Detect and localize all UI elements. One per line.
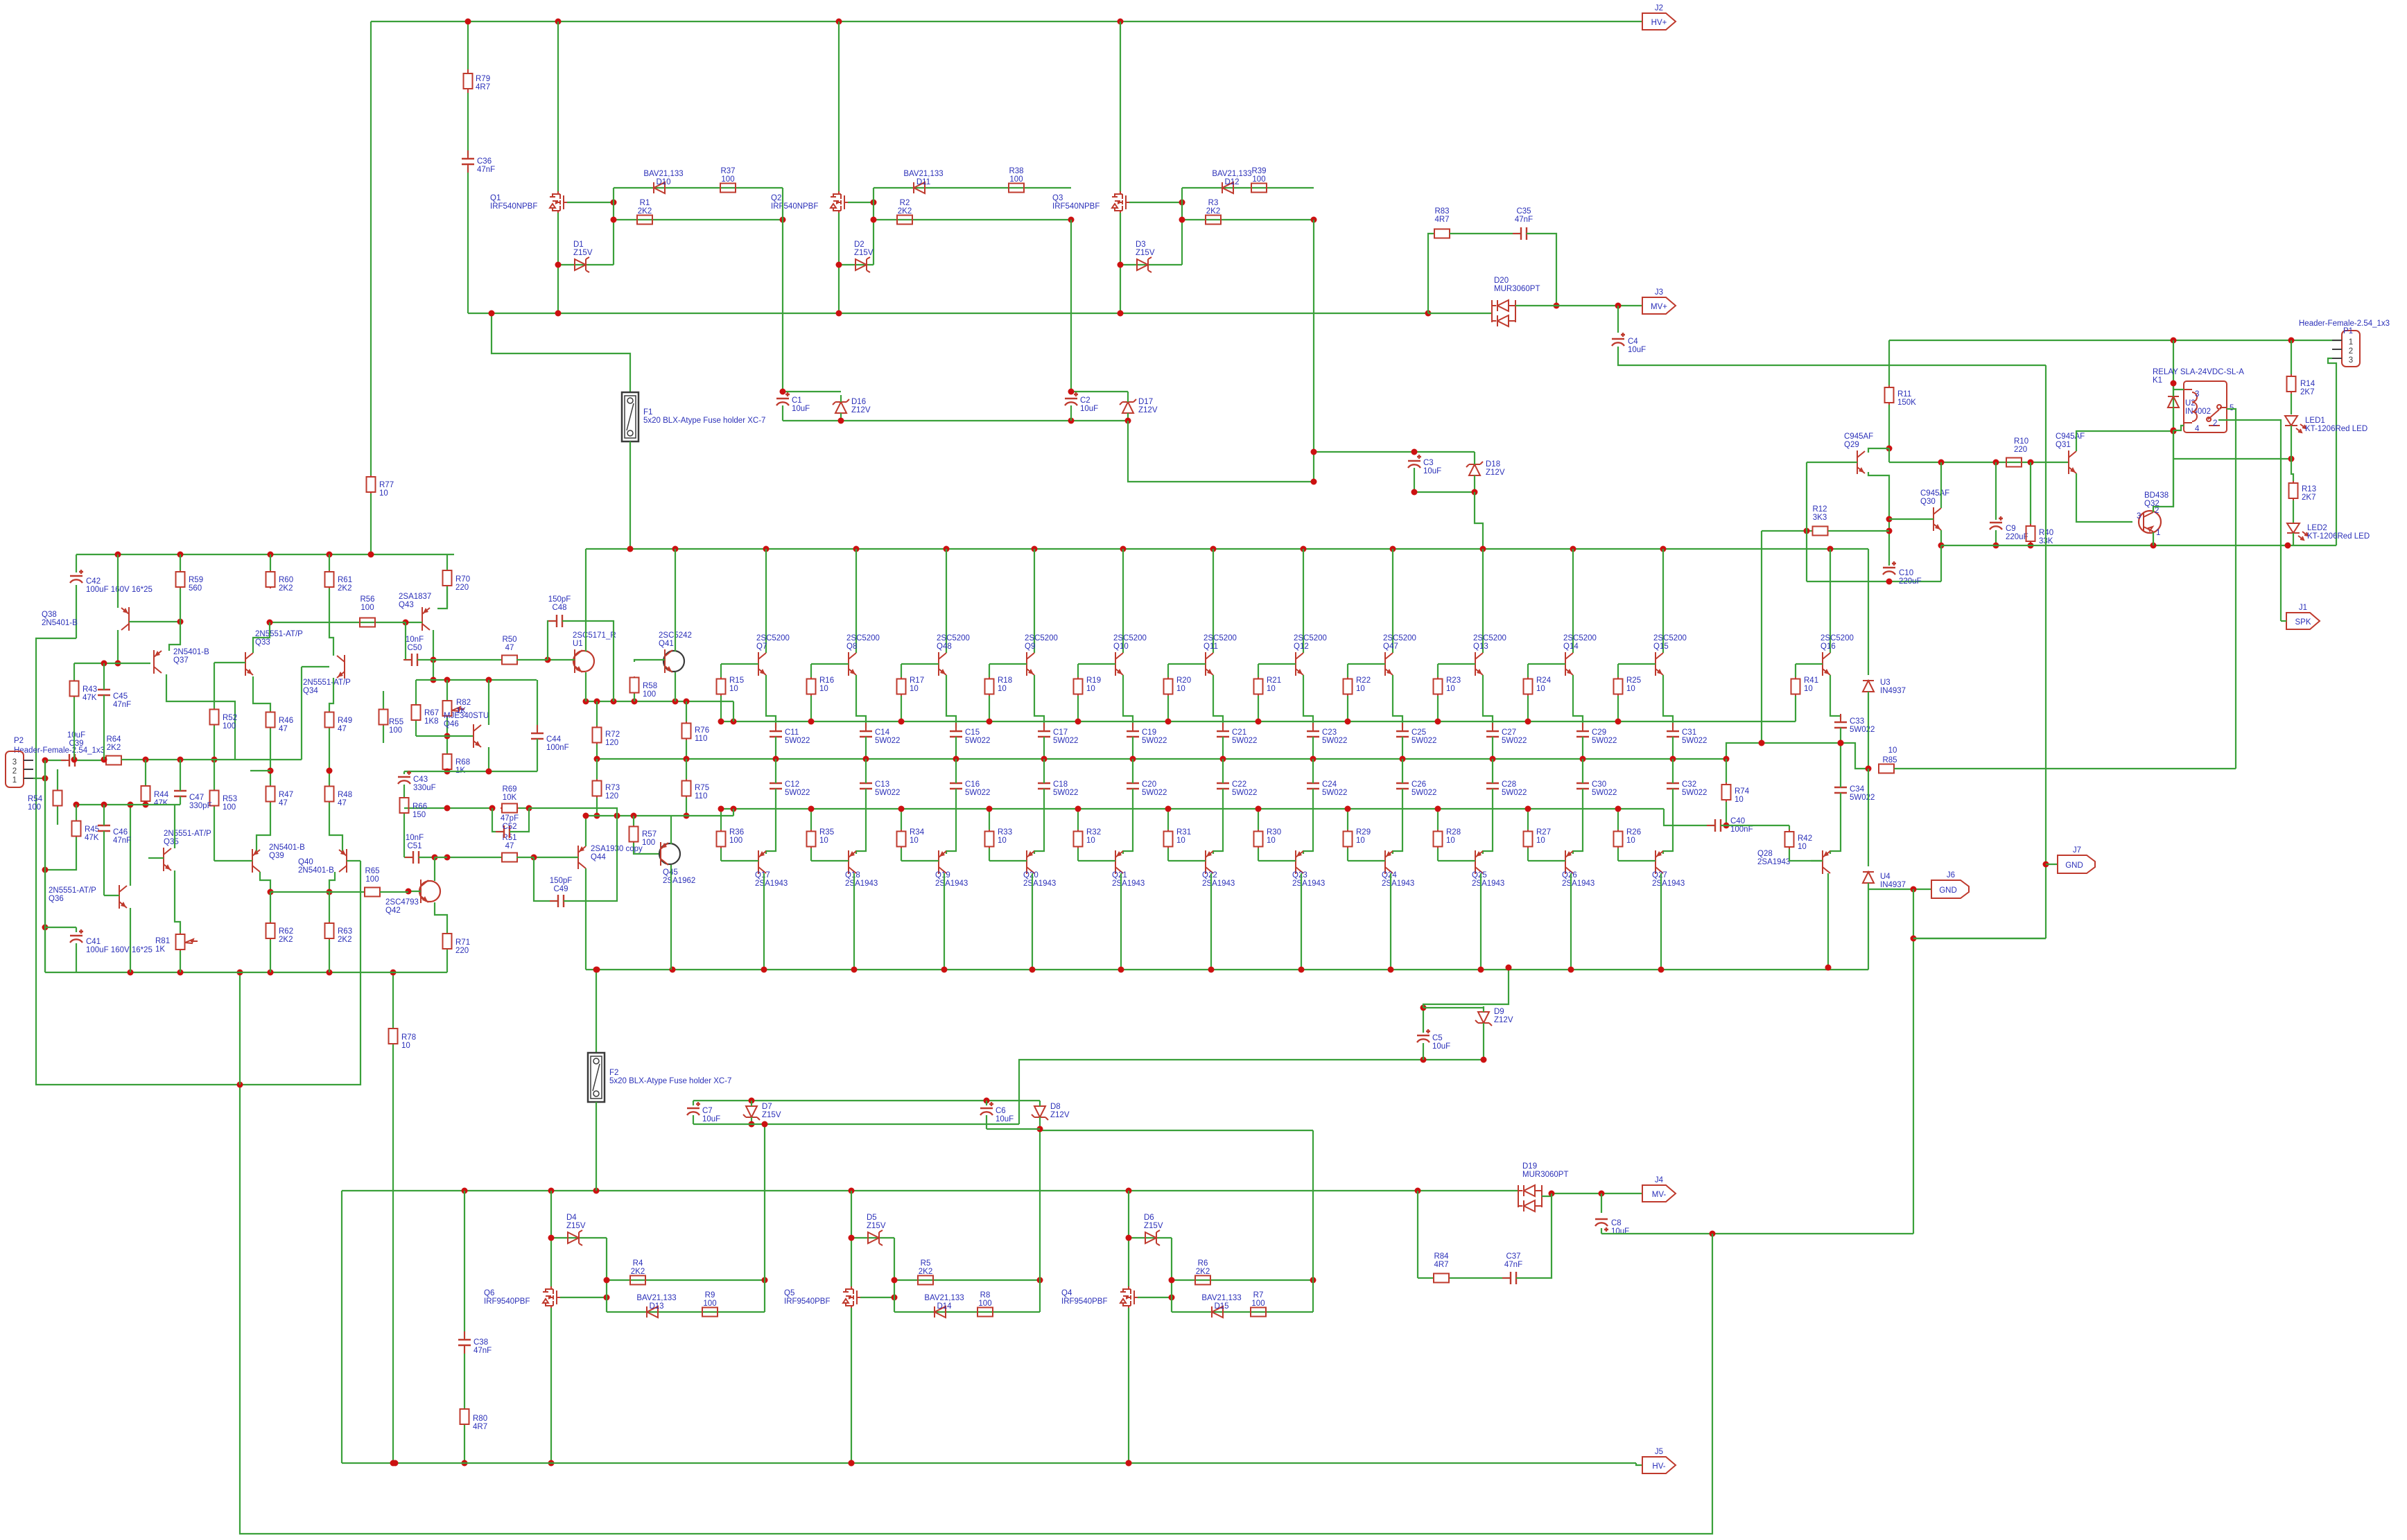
svg-text:R62: R62 bbox=[279, 927, 293, 936]
svg-text:BAV21,133: BAV21,133 bbox=[1212, 170, 1251, 178]
wire Q21 base bbox=[1078, 860, 1115, 861]
svg-text:100nF: 100nF bbox=[546, 744, 569, 752]
wire bbox=[865, 759, 867, 783]
wire relay pin2 to SPK bbox=[2218, 420, 2281, 621]
capacitor C3 10uF bbox=[1408, 460, 1420, 462]
wire rail corner bbox=[44, 760, 46, 972]
relay K1 SLA-24VDC-SL-A bbox=[2184, 381, 2227, 432]
svg-text:100: 100 bbox=[643, 690, 656, 699]
svg-text:P2: P2 bbox=[14, 737, 24, 745]
node Q47 collector bbox=[1390, 546, 1396, 552]
transistor Q44 2SA1930 bbox=[578, 846, 586, 869]
svg-text:3: 3 bbox=[2349, 356, 2353, 365]
svg-text:10: 10 bbox=[1804, 685, 1813, 693]
resistor R2 2K2 bbox=[897, 219, 912, 220]
wire R63 bbox=[329, 892, 330, 922]
connector J2 HV+ bbox=[1642, 13, 1676, 30]
resistor R18 10 bbox=[989, 677, 990, 696]
resistor R21 10 bbox=[1258, 677, 1259, 696]
wire Q47 collector bbox=[1392, 549, 1393, 653]
wire Q11 emitter bbox=[1213, 675, 1223, 728]
svg-text:R41: R41 bbox=[1804, 676, 1818, 685]
svg-text:Q27: Q27 bbox=[1652, 871, 1667, 880]
emitter resistor C20 5W022 bbox=[1132, 775, 1133, 797]
svg-text:Z15V: Z15V bbox=[867, 1222, 886, 1230]
svg-text:Q42: Q42 bbox=[385, 907, 401, 915]
wire bbox=[1840, 728, 1841, 743]
wire Q20 collector bbox=[1032, 873, 1033, 970]
svg-text:3: 3 bbox=[12, 758, 17, 767]
svg-text:C24: C24 bbox=[1322, 780, 1337, 789]
resistor R31 10 bbox=[1167, 830, 1169, 848]
svg-text:R21: R21 bbox=[1267, 676, 1281, 685]
diode U4 IN4937 bbox=[1863, 872, 1874, 883]
svg-text:Q30: Q30 bbox=[1920, 498, 1936, 506]
svg-text:120: 120 bbox=[605, 792, 618, 800]
wire Q23 collector bbox=[1301, 873, 1302, 970]
resistor R40 33K bbox=[2030, 524, 2031, 543]
wire Q42 base bbox=[408, 891, 421, 892]
svg-text:1K: 1K bbox=[155, 945, 165, 954]
capacitor C9 220uF bbox=[1990, 522, 2002, 523]
svg-text:10uF: 10uF bbox=[1080, 405, 1098, 413]
svg-text:5x20 BLX-Atype Fuse holder XC-: 5x20 BLX-Atype Fuse holder XC-7 bbox=[643, 417, 765, 425]
wire GND spine bbox=[2045, 365, 2047, 938]
wire protection output rail bbox=[1941, 545, 2336, 546]
wire R57 to Q45 base bbox=[634, 843, 661, 854]
svg-text:R37: R37 bbox=[720, 167, 735, 175]
wire bbox=[989, 848, 990, 861]
wire C51 bbox=[404, 857, 412, 858]
wire bbox=[2291, 394, 2292, 414]
svg-text:2SC5200: 2SC5200 bbox=[1821, 634, 1854, 642]
svg-text:Q19: Q19 bbox=[935, 871, 950, 880]
wire Q18 collector bbox=[853, 873, 855, 970]
wire R70 column bbox=[446, 554, 448, 570]
transistor Q3 IRF540NPBF bbox=[1120, 191, 1130, 213]
svg-text:10: 10 bbox=[401, 1042, 410, 1050]
wire spine bottom bbox=[1913, 938, 2046, 939]
wire bbox=[1127, 392, 1129, 402]
wire Q6 source bbox=[550, 1191, 552, 1287]
connector J4 MV- bbox=[1642, 1185, 1676, 1202]
wire Q23 base bbox=[1258, 860, 1296, 861]
wire Q13 base bbox=[1438, 663, 1475, 665]
transistor Q28 2SA1943 bbox=[1823, 850, 1830, 874]
wire input ground column bbox=[44, 760, 46, 972]
emitter resistor C28 5W022 bbox=[1492, 775, 1493, 797]
resistor R71 220 bbox=[446, 933, 448, 950]
svg-text:D20: D20 bbox=[1494, 277, 1509, 285]
wire Q14 base bbox=[1528, 663, 1565, 665]
svg-text:R81: R81 bbox=[155, 937, 170, 945]
svg-text:10K: 10K bbox=[503, 794, 517, 802]
svg-text:R52: R52 bbox=[223, 714, 237, 722]
capacitor C1 10uF bbox=[776, 398, 789, 399]
svg-text:BD438: BD438 bbox=[2144, 491, 2169, 500]
emitter resistor C31 5W022 bbox=[1672, 723, 1674, 745]
wire bbox=[370, 493, 372, 554]
wire bbox=[596, 798, 598, 816]
wire Q28 emitter bbox=[1830, 793, 1841, 854]
transistor U1 2SC5171_R bbox=[573, 651, 594, 672]
resistor R16 10 bbox=[810, 677, 812, 696]
svg-text:R17: R17 bbox=[910, 676, 924, 685]
transistor Q40 2N5401-B bbox=[339, 849, 347, 873]
wire U1 base bbox=[548, 659, 575, 660]
svg-text:J5: J5 bbox=[1655, 1448, 1663, 1456]
node Q9 collector bbox=[1032, 546, 1038, 552]
wire bbox=[989, 664, 990, 677]
svg-text:RELAY SLA-24VDC-SL-A: RELAY SLA-24VDC-SL-A bbox=[2153, 368, 2244, 376]
capacitor C2 10uF bbox=[1065, 398, 1077, 399]
emitter resistor C27 5W022 bbox=[1492, 723, 1493, 745]
capacitor C5 10uF bbox=[1417, 1035, 1430, 1036]
wire Q26 collector bbox=[1570, 873, 1572, 970]
wire bbox=[1132, 759, 1133, 783]
wire Q41 base bbox=[634, 660, 665, 662]
svg-text:R67: R67 bbox=[424, 709, 439, 717]
node Q1 drain bbox=[555, 19, 562, 25]
svg-text:Q44: Q44 bbox=[591, 853, 606, 861]
svg-text:5W022: 5W022 bbox=[1682, 789, 1707, 797]
wire Q42 collector bbox=[434, 857, 435, 881]
wire bbox=[751, 1117, 752, 1124]
svg-text:R19: R19 bbox=[1086, 676, 1101, 685]
wire bbox=[270, 554, 271, 570]
svg-text:MV+: MV+ bbox=[1651, 303, 1667, 311]
resistor R44 47K bbox=[145, 785, 146, 802]
resistor R6 2K2 bbox=[1195, 1279, 1210, 1281]
svg-text:Q31: Q31 bbox=[2056, 441, 2071, 449]
svg-text:R25: R25 bbox=[1626, 676, 1641, 685]
trimmer R82 1K bbox=[446, 680, 448, 700]
svg-text:C20: C20 bbox=[1142, 780, 1156, 789]
wire U3 column bbox=[1868, 549, 1869, 675]
svg-text:2SC4793: 2SC4793 bbox=[385, 898, 419, 907]
wire Q35 collector bbox=[174, 805, 175, 848]
svg-text:150K: 150K bbox=[1897, 399, 1916, 407]
svg-text:47nF: 47nF bbox=[1504, 1261, 1522, 1269]
wire Q27 base bbox=[1618, 860, 1656, 861]
svg-text:C14: C14 bbox=[875, 728, 890, 737]
svg-text:D8: D8 bbox=[1050, 1103, 1061, 1111]
svg-text:Q12: Q12 bbox=[1294, 642, 1309, 651]
emitter resistor C32 5W022 bbox=[1672, 775, 1674, 797]
svg-text:R28: R28 bbox=[1446, 828, 1461, 837]
wire bbox=[810, 809, 812, 830]
svg-text:R48: R48 bbox=[338, 791, 352, 799]
svg-text:R61: R61 bbox=[338, 576, 352, 584]
svg-text:R75: R75 bbox=[695, 784, 709, 792]
transistor Q45 2SA1962 bbox=[659, 843, 680, 864]
wire bbox=[1039, 1117, 1041, 1129]
emitter resistor C23 5W022 bbox=[1312, 723, 1314, 745]
svg-text:47: 47 bbox=[279, 799, 288, 807]
wire bbox=[901, 664, 902, 677]
svg-text:C1: C1 bbox=[792, 396, 802, 405]
resistor R57 100 bbox=[633, 825, 634, 843]
svg-text:10uF: 10uF bbox=[1423, 467, 1441, 475]
svg-text:Z15V: Z15V bbox=[573, 249, 593, 257]
svg-text:Q37: Q37 bbox=[173, 656, 189, 665]
wire H_a link bbox=[1726, 743, 1868, 769]
transistor Q47 2SC5200 bbox=[1385, 652, 1393, 676]
transistor Q4 IRF9540PBF bbox=[1129, 1286, 1138, 1309]
svg-text:MV-: MV- bbox=[1652, 1191, 1667, 1199]
svg-text:R66: R66 bbox=[412, 803, 427, 811]
svg-text:LED2: LED2 bbox=[2307, 524, 2327, 532]
svg-text:C34: C34 bbox=[1850, 785, 1865, 794]
transistor Q41 2SC5242 bbox=[663, 651, 684, 672]
wire Q5 gate bbox=[860, 1297, 894, 1298]
svg-text:C10: C10 bbox=[1899, 569, 1913, 577]
wire bbox=[1527, 664, 1529, 677]
wire bbox=[1423, 1008, 1424, 1033]
wire mid tap bbox=[250, 770, 270, 771]
wire Q24 collector bbox=[1390, 873, 1391, 970]
svg-text:MUR3060PT: MUR3060PT bbox=[1494, 285, 1540, 293]
wire Q2 block to C2 bbox=[1070, 220, 1072, 392]
wire Q21 collector bbox=[1120, 873, 1122, 970]
svg-text:BAV21,133: BAV21,133 bbox=[1201, 1294, 1241, 1302]
svg-text:100: 100 bbox=[642, 839, 655, 847]
svg-text:100: 100 bbox=[28, 803, 41, 812]
fuse F2 5x20 BLX-Atype bbox=[588, 1053, 605, 1102]
wire bbox=[103, 805, 105, 825]
wire D19 output bbox=[1542, 1193, 1552, 1196]
wire PNP driver bus bbox=[586, 815, 733, 816]
resistor R11 150K bbox=[1888, 385, 1890, 405]
wire C3/D18 bottom bbox=[1414, 491, 1475, 493]
wire D9 to rail bbox=[1423, 968, 1509, 1008]
svg-text:KT-1206Red LED: KT-1206Red LED bbox=[2307, 532, 2370, 541]
wire bbox=[720, 664, 722, 677]
node Q1 gate bbox=[611, 200, 617, 206]
emitter resistor C34 5W022 bbox=[1840, 779, 1841, 801]
svg-text:C33: C33 bbox=[1850, 717, 1864, 726]
svg-text:220uF: 220uF bbox=[2006, 533, 2028, 541]
svg-text:C52: C52 bbox=[502, 823, 516, 831]
wire bbox=[596, 759, 598, 779]
emitter resistor C16 5W022 bbox=[955, 775, 957, 797]
wire bbox=[1347, 809, 1348, 830]
svg-text:2SC5200: 2SC5200 bbox=[756, 634, 790, 642]
node HV+ / R79 bbox=[465, 19, 471, 25]
LED2 KT-1206Red LED bbox=[2287, 523, 2300, 533]
wire bbox=[2291, 426, 2292, 459]
wire bbox=[383, 726, 384, 743]
transistor Q19 2SA1943 bbox=[939, 850, 946, 874]
capacitor C36 bbox=[467, 150, 469, 173]
capacitor C8 10uF bbox=[1595, 1218, 1608, 1220]
wire bbox=[1222, 759, 1224, 783]
resistor R42 10 bbox=[1789, 830, 1790, 849]
wire Q36 emitter bbox=[130, 908, 131, 972]
svg-text:R47: R47 bbox=[279, 791, 293, 799]
node Q3 drain bbox=[1118, 19, 1124, 25]
wire C4 minus to GND spine bbox=[1618, 347, 2046, 365]
wire bbox=[76, 927, 77, 932]
wire bbox=[986, 1101, 987, 1105]
svg-text:R45: R45 bbox=[85, 825, 99, 834]
wire negative rail riser bbox=[1868, 889, 1869, 970]
svg-text:2SC5200: 2SC5200 bbox=[1383, 634, 1416, 642]
capacitor C49 150pF bbox=[550, 900, 572, 902]
svg-text:R38: R38 bbox=[1009, 167, 1023, 175]
svg-text:R11: R11 bbox=[1897, 390, 1911, 399]
transistor Q32 BD438 bbox=[2139, 511, 2161, 533]
transistor Q18 2SA1943 bbox=[849, 850, 856, 874]
wire bbox=[840, 395, 842, 402]
wire bbox=[1789, 825, 1790, 830]
resistor R83 4R7 bbox=[1434, 233, 1450, 234]
wire bbox=[1617, 664, 1619, 677]
svg-text:47K: 47K bbox=[154, 799, 168, 807]
wire Q10 base bbox=[1078, 663, 1115, 665]
svg-text:47: 47 bbox=[338, 799, 347, 807]
wire bbox=[2030, 462, 2031, 524]
wire bbox=[720, 696, 722, 721]
wire Q10 emitter bbox=[1123, 675, 1133, 728]
svg-text:C38: C38 bbox=[473, 1338, 488, 1347]
diode D11 BAV21,133 bbox=[914, 182, 925, 193]
wire R69 net bbox=[404, 807, 492, 809]
transistor Q1 IRF540NPBF bbox=[558, 191, 568, 213]
wire Q3 drain bbox=[1120, 21, 1121, 192]
wire Q46 base row bbox=[416, 735, 473, 737]
wire U4 to GND flags bbox=[1868, 889, 1931, 890]
svg-text:10: 10 bbox=[1536, 685, 1545, 693]
svg-text:Z15V: Z15V bbox=[854, 249, 874, 257]
emitter resistor C25 5W022 bbox=[1402, 723, 1403, 745]
svg-text:Q39: Q39 bbox=[269, 852, 284, 860]
svg-text:R58: R58 bbox=[643, 682, 657, 690]
wire R12 right bbox=[1828, 530, 1889, 532]
svg-text:C9: C9 bbox=[2006, 525, 2016, 533]
transistor Q26 2SA1943 bbox=[1565, 850, 1573, 874]
wire Q33 base bbox=[214, 662, 245, 663]
svg-text:10: 10 bbox=[1798, 843, 1807, 851]
wire PNP bus to C40 bbox=[1664, 809, 1715, 825]
svg-text:10: 10 bbox=[819, 837, 828, 845]
wire Q6 block to C7 bbox=[764, 1124, 765, 1312]
svg-text:C45: C45 bbox=[113, 692, 128, 701]
wire Q25 base bbox=[1438, 860, 1475, 861]
wire bbox=[57, 769, 58, 789]
wire bbox=[73, 663, 75, 680]
svg-text:Z12V: Z12V bbox=[851, 406, 871, 414]
wire Q12 collector bbox=[1303, 549, 1304, 653]
wire bbox=[1127, 413, 1129, 421]
wire bbox=[1423, 1043, 1424, 1060]
svg-text:Q20: Q20 bbox=[1023, 871, 1039, 880]
transistor Q22 2SA1943 bbox=[1206, 850, 1213, 874]
node Q14 collector bbox=[1570, 546, 1576, 552]
svg-text:2: 2 bbox=[2349, 347, 2353, 356]
transistor Q10 2SC5200 bbox=[1115, 652, 1123, 676]
wire bbox=[1222, 737, 1224, 759]
svg-text:D1: D1 bbox=[573, 240, 584, 249]
wire Q30 collector bbox=[1940, 462, 1942, 508]
svg-text:R23: R23 bbox=[1446, 676, 1461, 685]
transistor Q29 C945AF bbox=[1857, 450, 1865, 474]
wire bbox=[1601, 1228, 1602, 1234]
svg-text:2SA1943: 2SA1943 bbox=[1472, 880, 1504, 888]
wire gate node bbox=[606, 1238, 607, 1312]
wire bbox=[214, 726, 215, 760]
wire Q45 collector bbox=[670, 865, 672, 970]
svg-text:Z15V: Z15V bbox=[1136, 249, 1155, 257]
svg-text:10: 10 bbox=[1536, 837, 1545, 845]
svg-text:C51: C51 bbox=[407, 842, 422, 850]
svg-text:5W022: 5W022 bbox=[1850, 794, 1875, 802]
wire D13 bus bbox=[607, 1311, 765, 1313]
wire D10 bus bbox=[614, 187, 783, 189]
capacitor C51 10nF bbox=[405, 857, 427, 858]
wire C42 column bbox=[76, 554, 77, 572]
wire bbox=[1450, 1277, 1511, 1279]
node Q5 gate bbox=[892, 1295, 898, 1301]
svg-text:D15: D15 bbox=[1214, 1302, 1228, 1311]
wire bbox=[901, 848, 902, 861]
resistor R62 2K2 bbox=[270, 922, 271, 940]
wire Q39 collector bbox=[260, 872, 270, 892]
wire Q34 collector bbox=[329, 588, 333, 656]
diode D10 BAV21,133 bbox=[654, 182, 665, 193]
svg-text:47: 47 bbox=[505, 842, 514, 850]
wire Q16 base bbox=[1796, 663, 1823, 665]
svg-text:1: 1 bbox=[2156, 529, 2160, 537]
svg-text:R72: R72 bbox=[605, 730, 620, 739]
transistor Q31 C945AF bbox=[2069, 450, 2076, 474]
svg-text:2SA1943: 2SA1943 bbox=[1562, 880, 1594, 888]
svg-text:2K2: 2K2 bbox=[338, 584, 351, 593]
svg-text:Q5: Q5 bbox=[784, 1289, 794, 1297]
wire bbox=[1868, 692, 1869, 769]
resistor R72 120 bbox=[596, 726, 598, 744]
zener D3 Z15V bbox=[1137, 259, 1148, 270]
svg-text:R4: R4 bbox=[633, 1259, 643, 1268]
svg-text:C44: C44 bbox=[546, 735, 562, 744]
capacitor C7 10uF bbox=[687, 1108, 699, 1109]
node Q48 collector bbox=[944, 546, 950, 552]
node Q10 collector bbox=[1120, 546, 1127, 552]
wire bbox=[775, 737, 776, 759]
wire Q46 emitter bbox=[488, 747, 489, 771]
svg-text:2K2: 2K2 bbox=[279, 936, 293, 944]
svg-text:2K2: 2K2 bbox=[107, 744, 121, 752]
resistor R35 10 bbox=[810, 830, 812, 848]
svg-text:C35: C35 bbox=[1516, 207, 1531, 216]
svg-text:R80: R80 bbox=[473, 1415, 487, 1423]
wire R42 to Q28 base bbox=[1789, 849, 1823, 861]
wire Q48 collector bbox=[946, 549, 947, 653]
svg-text:C49: C49 bbox=[553, 885, 568, 893]
svg-text:Q14: Q14 bbox=[1563, 642, 1579, 651]
wire Q14 collector bbox=[1572, 549, 1574, 653]
resistor R37 100 bbox=[720, 187, 736, 189]
transistor Q20 2SA1943 bbox=[1027, 850, 1034, 874]
svg-text:R39: R39 bbox=[1251, 167, 1266, 175]
wire bbox=[1492, 759, 1493, 783]
svg-text:Header-Female-2.54_1x3: Header-Female-2.54_1x3 bbox=[14, 746, 105, 755]
wire J7 bbox=[2046, 864, 2058, 865]
svg-text:3: 3 bbox=[2137, 512, 2141, 520]
wire R50 row bbox=[417, 659, 503, 660]
wire Q37 collector bbox=[166, 674, 235, 760]
wire bbox=[73, 697, 75, 760]
